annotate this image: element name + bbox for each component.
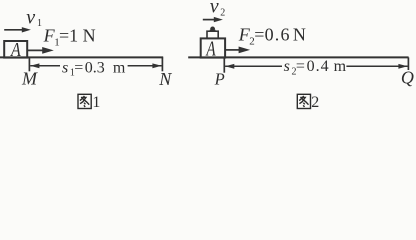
- svg-text:=1 N: =1 N: [59, 25, 96, 45]
- svg-text:A: A: [10, 38, 21, 60]
- svg-text:v: v: [210, 0, 219, 18]
- svg-text:=: =: [74, 59, 83, 76]
- svg-text:0.3: 0.3: [85, 59, 105, 76]
- svg-text:1: 1: [37, 18, 42, 29]
- svg-text:N: N: [293, 24, 306, 44]
- svg-text:v: v: [26, 6, 35, 28]
- svg-text:=: =: [254, 24, 264, 44]
- svg-text:M: M: [21, 68, 38, 88]
- svg-text:Q: Q: [401, 67, 414, 87]
- svg-text:N: N: [158, 69, 172, 89]
- svg-text:2: 2: [220, 8, 225, 19]
- svg-text:s: s: [284, 58, 290, 75]
- svg-text:1: 1: [92, 94, 100, 111]
- svg-text:m: m: [334, 58, 347, 75]
- svg-text:=: =: [296, 58, 305, 75]
- svg-text:P: P: [214, 69, 225, 88]
- svg-text:A: A: [206, 37, 217, 60]
- svg-text:2: 2: [311, 94, 319, 111]
- svg-text:m: m: [113, 59, 126, 76]
- svg-text:0.6: 0.6: [265, 24, 291, 44]
- svg-text:s: s: [62, 59, 68, 76]
- svg-text:0.4: 0.4: [307, 58, 330, 75]
